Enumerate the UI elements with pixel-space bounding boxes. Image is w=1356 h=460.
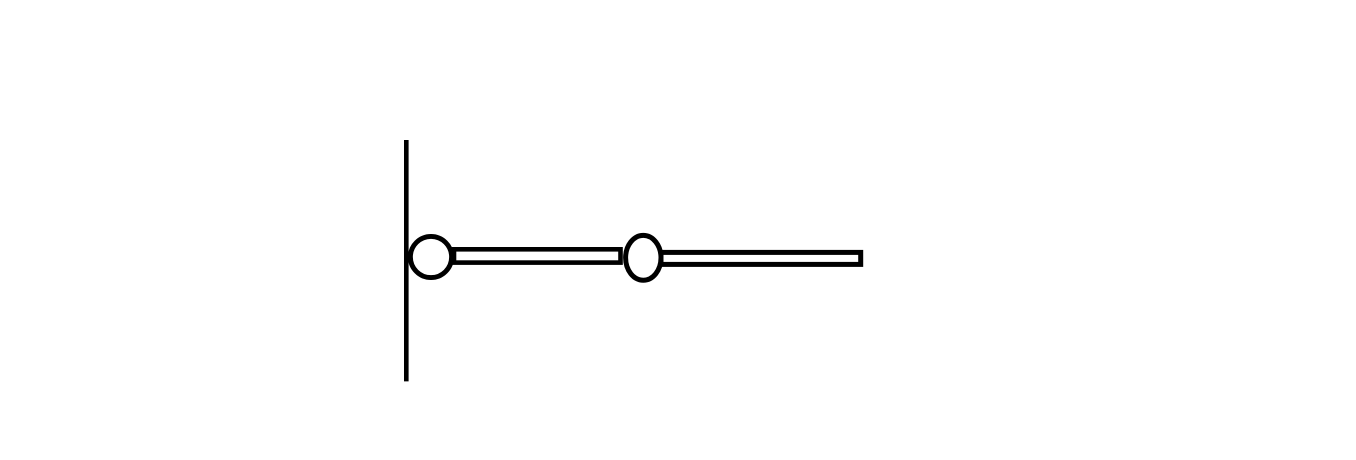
link 1 bar [454,249,621,262]
wall / fixed base line [404,140,409,381]
link 2 bar [661,252,861,264]
revolute joint J1 [410,236,451,277]
revolute joint J2 [626,235,661,280]
